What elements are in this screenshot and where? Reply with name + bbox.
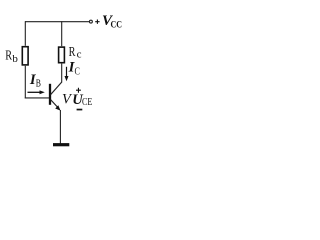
svg-text:CE: CE [82, 97, 92, 108]
wire top rail [25, 21, 89, 23]
arrow IC [66, 67, 68, 76]
svg-text:b: b [12, 53, 18, 65]
transistor Q1 emitter lead [51, 100, 58, 108]
transistor Q1 base bar [49, 84, 51, 105]
terminal +Vcc [89, 20, 92, 23]
plus sign Vcc [95, 20, 99, 24]
transistor Q1 collector lead [51, 82, 62, 95]
arrow IB [28, 91, 40, 93]
label - (UCE) [77, 109, 83, 111]
wire right branch top [61, 21, 63, 46]
wire collector vertical [61, 64, 63, 83]
svg-text:R: R [5, 47, 12, 62]
wire left branch bottom [24, 66, 26, 99]
transistor Q1 emitter arrowhead [55, 105, 60, 110]
resistor Rc [59, 47, 65, 63]
svg-text:CC: CC [111, 20, 123, 30]
svg-text:c: c [77, 48, 82, 60]
svg-text:C: C [75, 67, 81, 78]
wire left branch top [24, 21, 26, 46]
wire base [25, 97, 50, 99]
svg-text:B: B [36, 79, 41, 90]
svg-text:R: R [69, 44, 76, 59]
ground [53, 143, 69, 146]
label + (UCE) [76, 88, 81, 93]
resistor Rb [22, 47, 28, 65]
wire emitter vertical [59, 110, 61, 144]
